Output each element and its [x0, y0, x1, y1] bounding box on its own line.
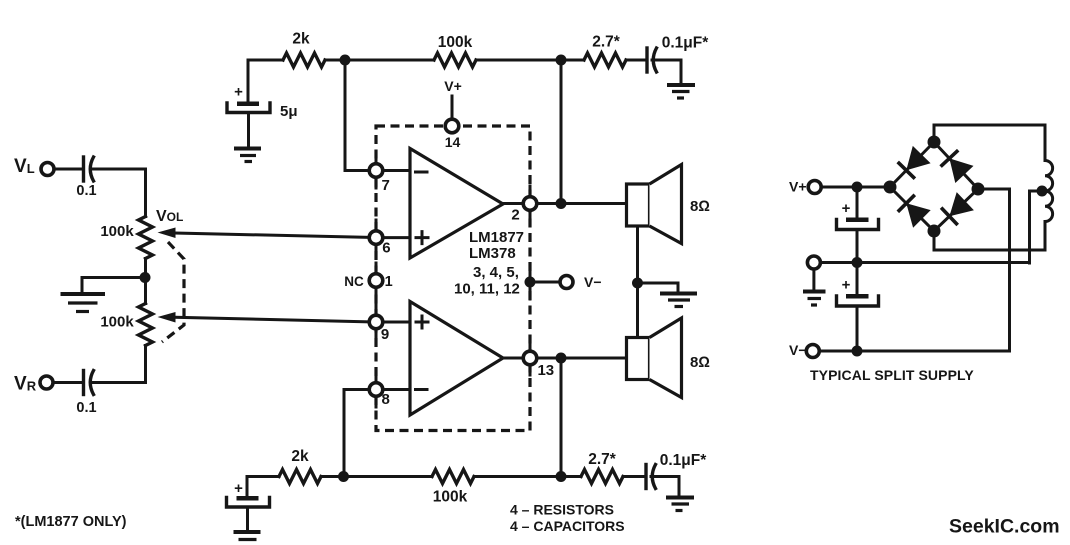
svg-text:100k: 100k — [100, 223, 134, 240]
svg-text:+: + — [842, 277, 851, 294]
svg-text:4 – RESISTORS: 4 – RESISTORS — [510, 502, 614, 518]
svg-text:VOL: VOL — [156, 208, 183, 225]
svg-text:14: 14 — [445, 134, 461, 150]
svg-text:V+: V+ — [444, 78, 462, 94]
svg-text:2k: 2k — [292, 31, 310, 48]
svg-text:SeekIC.com: SeekIC.com — [949, 516, 1060, 538]
svg-text:10, 11, 12: 10, 11, 12 — [454, 281, 520, 298]
svg-text:7: 7 — [382, 177, 390, 194]
svg-text:4 – CAPACITORS: 4 – CAPACITORS — [510, 518, 625, 534]
svg-text:0.1μF*: 0.1μF* — [662, 35, 709, 52]
svg-text:3, 4, 5,: 3, 4, 5, — [473, 264, 519, 281]
svg-text:6: 6 — [382, 240, 390, 257]
svg-text:V−: V− — [584, 274, 602, 290]
svg-text:LM378: LM378 — [469, 245, 516, 262]
svg-text:+: + — [234, 84, 243, 101]
svg-text:LM1877: LM1877 — [469, 229, 524, 246]
svg-text:0.1: 0.1 — [76, 400, 96, 416]
svg-text:1: 1 — [385, 274, 393, 290]
svg-text:+: + — [842, 200, 851, 217]
svg-text:8: 8 — [382, 391, 390, 408]
svg-text:100k: 100k — [100, 314, 134, 331]
svg-text:0.1μF*: 0.1μF* — [660, 452, 707, 469]
svg-text:0.1: 0.1 — [76, 183, 96, 199]
svg-text:2: 2 — [511, 207, 519, 224]
svg-text:TYPICAL SPLIT SUPPLY: TYPICAL SPLIT SUPPLY — [810, 367, 974, 383]
svg-text:V−: V− — [789, 342, 807, 358]
svg-text:V+: V+ — [789, 179, 807, 195]
svg-text:13: 13 — [537, 362, 554, 379]
svg-text:100k: 100k — [438, 34, 473, 51]
svg-text:2k: 2k — [291, 448, 309, 465]
svg-text:2.7*: 2.7* — [592, 34, 621, 51]
svg-text:NC: NC — [344, 274, 364, 289]
svg-text:9: 9 — [381, 326, 389, 343]
svg-text:2.7*: 2.7* — [588, 451, 617, 468]
svg-text:5μ: 5μ — [280, 103, 298, 120]
svg-text:8Ω: 8Ω — [690, 354, 710, 371]
svg-text:8Ω: 8Ω — [690, 198, 710, 215]
svg-text:100k: 100k — [433, 489, 468, 506]
svg-text:*(LM1877 ONLY): *(LM1877 ONLY) — [15, 514, 127, 530]
svg-text:+: + — [234, 480, 243, 497]
